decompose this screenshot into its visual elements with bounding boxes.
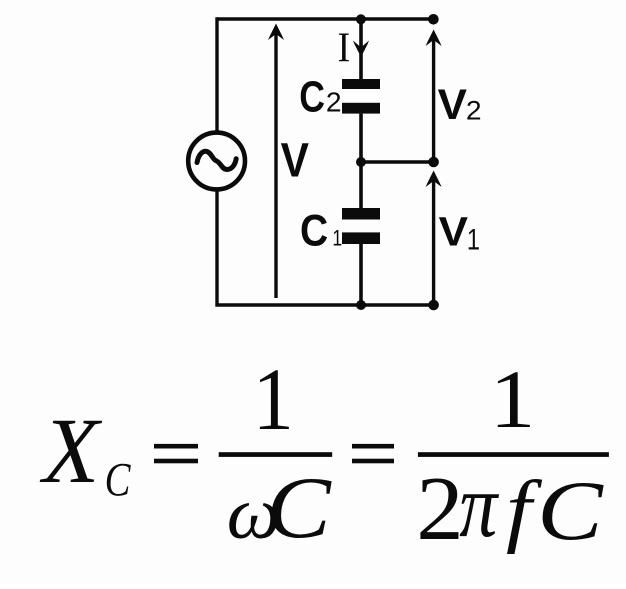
svg-text:2: 2 xyxy=(416,459,463,560)
label V2 xyxy=(438,82,482,129)
wire middle horizontal xyxy=(361,160,434,163)
capacitor C1 xyxy=(342,208,380,244)
arrow V1 xyxy=(426,171,442,306)
svg-text:V: V xyxy=(439,209,469,254)
svg-text:1: 1 xyxy=(490,353,536,445)
svg-text:I: I xyxy=(338,24,351,71)
formula numerator 1 (first) xyxy=(253,349,294,449)
svg-text:V: V xyxy=(438,82,467,129)
label C2 xyxy=(299,73,341,121)
formula 2 xyxy=(416,459,463,560)
label V1 xyxy=(439,209,480,256)
node bottom right xyxy=(428,300,439,311)
node middle right xyxy=(428,157,439,168)
wire left vertical lower xyxy=(217,191,434,307)
formula C denominator 2 xyxy=(537,463,605,557)
arrow I xyxy=(353,41,369,58)
svg-text:C: C xyxy=(537,463,605,557)
node top right xyxy=(428,14,439,25)
svg-text:V: V xyxy=(281,133,310,187)
arrow V xyxy=(268,24,284,299)
formula C denominator 1 xyxy=(266,459,332,556)
formula X xyxy=(39,399,103,503)
formula fraction bar 1 xyxy=(219,452,333,457)
formula omega xyxy=(227,473,281,555)
node top middle xyxy=(356,14,366,24)
formula pi xyxy=(459,456,499,557)
wire middle node to C1 xyxy=(359,162,363,208)
wire left vertical upper xyxy=(215,17,218,131)
formula equals 1 xyxy=(154,444,198,463)
wire C2 to middle node xyxy=(359,114,363,162)
svg-text:C: C xyxy=(300,205,328,255)
svg-text:C: C xyxy=(266,459,332,556)
capacitor C2 xyxy=(342,79,380,114)
svg-text:C: C xyxy=(105,454,132,507)
formula equals 2 xyxy=(352,444,394,463)
AC source xyxy=(188,133,245,190)
svg-text:1: 1 xyxy=(332,227,342,251)
label V xyxy=(281,133,310,187)
svg-text:X: X xyxy=(39,399,103,503)
svg-text:1: 1 xyxy=(467,223,480,256)
formula numerator 1 (second) xyxy=(490,353,536,445)
svg-text:2: 2 xyxy=(466,95,482,125)
svg-text:2: 2 xyxy=(326,87,342,117)
wire C1 to bottom xyxy=(359,244,363,305)
formula subscript C xyxy=(105,454,132,507)
node middle left xyxy=(356,157,366,167)
wire middle branch top xyxy=(359,19,363,79)
label C1 xyxy=(300,205,342,255)
wire top horizontal xyxy=(217,17,434,20)
arrow V2 xyxy=(426,30,442,163)
node bottom middle xyxy=(356,300,366,310)
svg-text:1: 1 xyxy=(253,349,294,449)
formula f xyxy=(506,465,543,555)
svg-text:C: C xyxy=(299,73,325,121)
svg-text:π: π xyxy=(459,456,499,557)
label I xyxy=(338,24,351,71)
formula fraction bar 2 xyxy=(418,452,609,457)
